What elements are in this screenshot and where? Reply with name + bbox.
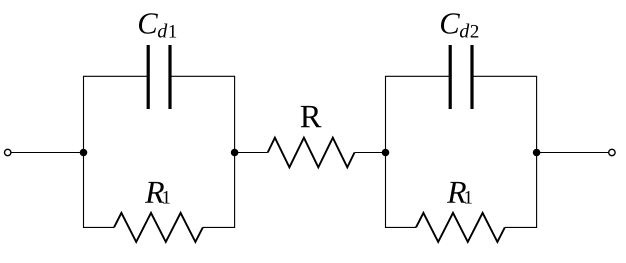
resistor R1 (left, zigzag) [114, 213, 203, 242]
wire left cell bottom loop (with gap for resistor R1) [84, 153, 235, 228]
label R_1 (right resistor) [447, 182, 472, 204]
capacitor C_d1 plates [147, 45, 150, 109]
wire right cell bottom loop (with gap for resistor R1 right) [386, 153, 537, 228]
terminal T1 (left open circle) [5, 149, 11, 155]
wire left terminal to node A [11, 152, 84, 154]
wire left cell loop (rectangle sides, with gap for capacitor C_d1) [84, 76, 235, 152]
node D (right junction dot) [533, 149, 541, 157]
node B (junction dot left of R) [231, 149, 239, 157]
label R (middle resistor) [301, 106, 322, 127]
resistor R1 (right, zigzag) [416, 213, 505, 242]
node A (left junction dot) [80, 149, 88, 157]
terminal T2 (right open circle) [609, 149, 615, 155]
wire resistor R to node C [355, 152, 386, 154]
node C (junction dot right of R) [382, 149, 390, 157]
wire node D to right terminal [537, 152, 609, 154]
resistor R (middle, zigzag) [268, 138, 355, 168]
label C_d1 [139, 13, 176, 37]
wire node B to resistor R [235, 152, 268, 154]
label R_1 (left resistor) [145, 182, 170, 204]
capacitor C_d2 plates [449, 45, 452, 109]
wire right cell top loop (with gap for capacitor C_d2) [386, 76, 537, 152]
label C_d2 [441, 13, 478, 37]
